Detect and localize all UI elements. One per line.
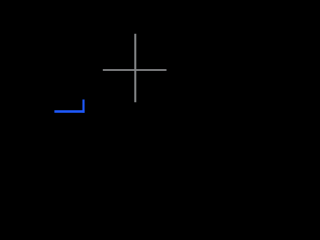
blue selection corner bracket: vertical segment <box>82 100 84 113</box>
crosshair cursor: vertical arm <box>134 34 136 103</box>
crosshair cursor: horizontal arm <box>103 69 167 71</box>
canvas background <box>0 0 177 126</box>
blue selection corner bracket: horizontal segment <box>54 110 84 112</box>
